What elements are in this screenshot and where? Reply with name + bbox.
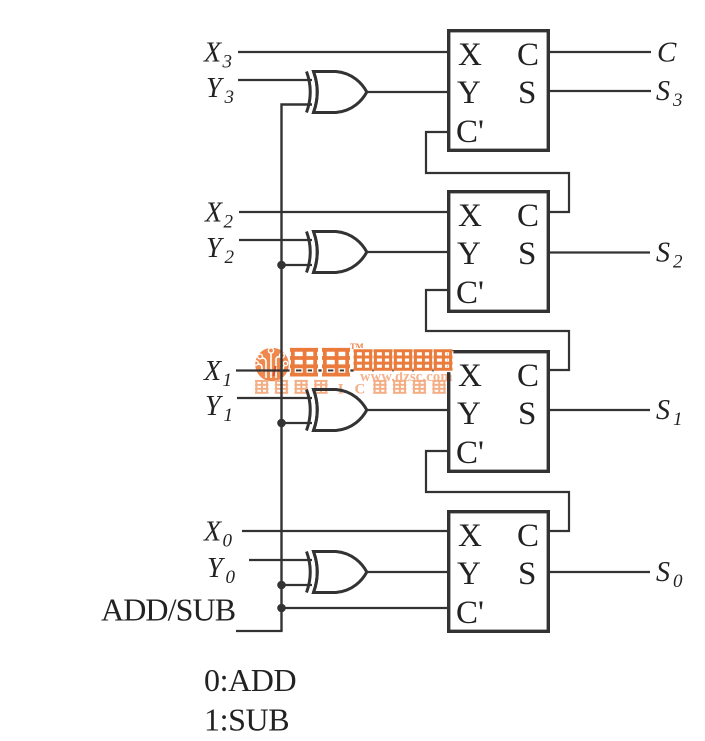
- svg-text:S: S: [518, 75, 536, 111]
- svg-text:C': C': [456, 275, 484, 311]
- svg-text:S: S: [656, 238, 670, 269]
- XOR gate G1: [307, 390, 367, 431]
- svg-text:C': C': [456, 114, 484, 150]
- svg-text:Y: Y: [457, 75, 481, 111]
- svg-text:C: C: [657, 37, 677, 69]
- label Y2: [206, 233, 235, 268]
- wire Y0: [249, 559, 312, 561]
- svg-text:S: S: [518, 396, 536, 432]
- svg-text:C: C: [517, 198, 539, 234]
- svg-text:S: S: [518, 236, 536, 272]
- watermark brand 维库电子市场网: [290, 341, 453, 375]
- wire Y1: [237, 397, 312, 399]
- wire branch to G2: [282, 264, 313, 266]
- svg-text:S: S: [656, 395, 670, 426]
- svg-text:1: 1: [224, 405, 234, 426]
- label S1: [656, 395, 683, 430]
- watermark slogan 全球最大IC采购网站: [255, 381, 446, 398]
- wire X1: [236, 369, 447, 371]
- wire G2 output: [366, 251, 447, 253]
- svg-text:0: 0: [226, 567, 236, 588]
- label S2: [656, 238, 683, 273]
- label X2: [204, 198, 234, 233]
- svg-text:C: C: [517, 518, 539, 554]
- svg-text:2: 2: [224, 212, 234, 233]
- wire X3: [238, 51, 447, 53]
- svg-text:Y: Y: [457, 396, 481, 432]
- svg-text:C': C': [456, 595, 484, 631]
- svg-text:C': C': [456, 435, 484, 471]
- wire S0 out: [550, 571, 650, 573]
- svg-text:2: 2: [673, 252, 683, 273]
- XOR gate G3: [307, 72, 367, 113]
- wire X0: [242, 530, 447, 532]
- watermark logo circle: [254, 348, 289, 382]
- svg-text:ADD/SUB: ADD/SUB: [101, 592, 235, 628]
- label S3: [656, 76, 683, 111]
- svg-text:C: C: [517, 358, 539, 394]
- wire carry FA1.C to FA2.C-prime: [426, 290, 569, 370]
- svg-text:X: X: [203, 38, 222, 69]
- wire S2 out: [550, 251, 650, 253]
- label X0: [203, 517, 233, 552]
- wire ADD/SUB vertical bus: [282, 105, 313, 632]
- wire S1 out: [550, 409, 650, 411]
- full adder FA1: [449, 352, 549, 472]
- svg-text:X: X: [458, 37, 482, 73]
- svg-text:C: C: [355, 382, 366, 398]
- svg-text:3: 3: [672, 90, 683, 111]
- junction dot FA0 C-prime: [277, 604, 286, 613]
- junction dot G2: [277, 261, 286, 270]
- full adder FA0: [449, 512, 549, 632]
- svg-text:2: 2: [225, 247, 235, 268]
- label Y0: [207, 553, 236, 588]
- svg-text:3: 3: [222, 52, 233, 73]
- svg-text:Y: Y: [457, 556, 481, 592]
- wire branch to FA0 C-prime: [282, 607, 448, 609]
- wire G0 output: [366, 571, 447, 573]
- wire branch to G0: [282, 584, 313, 586]
- svg-text:1: 1: [673, 409, 683, 430]
- svg-text:X: X: [204, 198, 223, 229]
- svg-text:X: X: [458, 358, 482, 394]
- label X3: [203, 38, 232, 73]
- wire G3 output: [366, 91, 447, 93]
- XOR gate G0: [307, 552, 367, 593]
- wire carry FA0.C to FA1.C-prime: [426, 451, 569, 531]
- wire S3 out: [550, 90, 651, 92]
- full adder FA3: [449, 31, 549, 151]
- svg-text:X: X: [458, 198, 482, 234]
- svg-text:0:ADD: 0:ADD: [204, 662, 296, 698]
- label Y3: [206, 73, 234, 108]
- full adder FA2: [449, 192, 549, 312]
- wire ADD/SUB horizontal: [236, 630, 283, 632]
- wire Y2: [239, 239, 312, 241]
- wire Y3: [238, 79, 312, 81]
- svg-text:1: 1: [223, 370, 233, 391]
- label X1: [203, 356, 232, 391]
- label Y1: [205, 391, 233, 426]
- XOR gate G2: [307, 232, 367, 273]
- wire carry FA2.C to FA3.C-prime: [426, 132, 569, 212]
- wire G1 output: [366, 409, 447, 411]
- svg-text:1:SUB: 1:SUB: [204, 702, 289, 738]
- junction dot G1: [277, 419, 286, 428]
- junction dot G0: [277, 581, 286, 590]
- svg-text:0: 0: [673, 571, 683, 592]
- svg-text:C: C: [517, 37, 539, 73]
- svg-text:X: X: [203, 356, 222, 387]
- svg-text:X: X: [203, 517, 222, 548]
- wire X2: [239, 211, 447, 213]
- label S0: [656, 557, 683, 592]
- svg-text:Y: Y: [457, 236, 481, 272]
- svg-text:S: S: [656, 557, 670, 588]
- svg-text:S: S: [518, 556, 536, 592]
- svg-text:3: 3: [224, 87, 235, 108]
- svg-text:0: 0: [223, 531, 233, 552]
- svg-text:X: X: [458, 518, 482, 554]
- wire C out: [550, 51, 651, 53]
- wire branch to G1: [282, 422, 313, 424]
- svg-text:S: S: [656, 76, 670, 107]
